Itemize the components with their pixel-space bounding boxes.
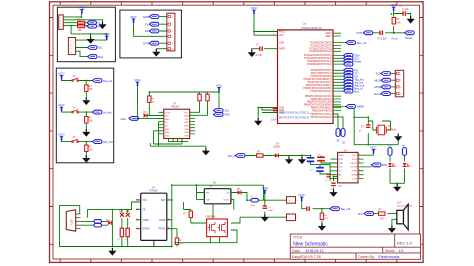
svg-text:R?: R? [183, 213, 187, 215]
ground (usb rail) [108, 248, 116, 256]
svg-text:GND: GND [279, 43, 284, 45]
svg-text:PC6(/RESET/PCINT14): PC6(/RESET/PCINT14) [307, 61, 332, 63]
net label Bus_in [228, 154, 302, 158]
svg-text:1K: 1K [180, 243, 183, 245]
svg-text:AC: AC [339, 174, 342, 177]
svg-text:X?: X? [388, 124, 392, 128]
ground [82, 129, 90, 137]
svg-text:D?: D? [392, 163, 396, 165]
VCC (pullups) [216, 83, 223, 91]
capacitor C vert (red) [325, 175, 331, 183]
net label Bus_lvl [344, 86, 364, 90]
svg-text:+: + [289, 199, 291, 203]
boost pin names [206, 192, 210, 201]
svg-text:USB: USB [71, 219, 74, 224]
svg-text:BAT: BAT [161, 199, 166, 202]
svg-text:DIO: DIO [165, 116, 169, 118]
svg-text:10K: 10K [78, 29, 83, 32]
net label GND [143, 15, 159, 19]
svg-text:1/1: 1/1 [399, 249, 404, 253]
svg-text:10uF: 10uF [338, 186, 344, 188]
dual MOSFET FS8205A [206, 216, 228, 237]
resistor R pullup2 [205, 93, 210, 101]
VCC (oled) [134, 78, 141, 86]
wire xtal1 [333, 114, 343, 129]
wire [390, 156, 405, 185]
fuse F2 (blue) [94, 223, 102, 227]
svg-text:10K: 10K [89, 148, 94, 151]
ground (battery cap) [261, 214, 269, 222]
svg-text:7: 7 [359, 177, 360, 179]
svg-text:10K: 10K [89, 88, 94, 91]
wire [254, 14, 278, 35]
svg-text:PB7(PCINT7/XTAL2/TOSC2): PB7(PCINT7/XTAL2/TOSC2) [279, 117, 309, 120]
svg-text:U?: U? [303, 23, 307, 26]
net label SCL [88, 46, 104, 50]
wire [62, 141, 93, 158]
resistor R1 [78, 19, 85, 25]
diode D bus [273, 143, 280, 158]
ground (divider) [318, 223, 326, 231]
svg-text:Buz: Buz [359, 212, 364, 216]
resistor R prog [175, 238, 183, 245]
svg-text:PB4(PCINT4/MISO): PB4(PCINT4/MISO) [311, 108, 332, 110]
svg-text:Reset: Reset [406, 36, 413, 40]
LED D2 [403, 163, 412, 168]
svg-text:PB6(PCINT6/XTAL1/TOSC1): PB6(PCINT6/XTAL1/TOSC1) [279, 112, 309, 115]
svg-text:X2: X2 [342, 142, 346, 145]
wire (under IC to gnd) [150, 122, 206, 148]
svg-text:1: 1 [297, 218, 299, 220]
svg-text:PROG: PROG [159, 229, 166, 231]
svg-text:BUSY: BUSY [351, 163, 357, 165]
wire (protection) [174, 202, 240, 243]
net label SCK [376, 72, 396, 76]
resistor R2 [78, 25, 85, 32]
net label TX [145, 22, 159, 26]
capacitor C batt [263, 206, 274, 212]
resistor R5 10K [85, 145, 94, 152]
svg-text:R?: R? [379, 209, 383, 212]
svg-text:C? 0.1uF: C? 0.1uF [377, 37, 387, 40]
VCC [58, 71, 65, 79]
svg-text:TXD: TXD [339, 163, 344, 165]
ground (speaker) [388, 225, 396, 233]
svg-text:10K: 10K [205, 93, 209, 95]
svg-text:R?: R? [324, 215, 328, 217]
wire [62, 80, 93, 99]
speaker LS? [397, 201, 413, 229]
svg-text:PD5(PCINT21/OC0B/T1): PD5(PCINT21/OC0B/T1) [306, 85, 332, 87]
svg-text:AVCC: AVCC [279, 30, 286, 33]
battery terminal B- [287, 214, 299, 221]
capacitor C in2 (blue) [310, 168, 324, 172]
svg-text:CHRG: CHRG [142, 220, 149, 222]
svg-text:PLE2: PLE2 [352, 159, 358, 161]
svg-text:PB3(PCINT3/OC2A/MOSI): PB3(PCINT3/OC2A/MOSI) [304, 104, 332, 107]
net label MISO [374, 78, 395, 82]
switch S1 [72, 75, 79, 82]
svg-text:Sheet:: Sheet: [385, 249, 395, 253]
net label Add_but [344, 83, 365, 87]
sheet outer border frame [50, 2, 424, 263]
svg-text:6: 6 [359, 173, 360, 175]
connector P2 (4 pin) [68, 38, 75, 55]
wire [134, 17, 167, 51]
svg-text:1K: 1K [152, 101, 155, 103]
wire speaker gnd [392, 214, 397, 226]
svg-text:Bus_vol: Bus_vol [357, 41, 367, 45]
ground (leds) [393, 184, 401, 192]
net label MOSI [374, 85, 395, 89]
net label Add_but [92, 140, 112, 144]
svg-text:TX: TX [145, 22, 149, 26]
TP4056 pin stubs [136, 200, 172, 247]
IC U? TP4056 body [141, 186, 167, 240]
net label SCL [344, 56, 361, 60]
svg-text:C?: C? [361, 125, 365, 128]
svg-text:VCC: VCC [142, 200, 147, 202]
svg-text:0.1uF: 0.1uF [256, 54, 263, 57]
svg-text:Vol_but: Vol_but [103, 110, 112, 114]
wire [252, 48, 278, 51]
diode D boost [237, 188, 241, 195]
svg-text:10uF: 10uF [271, 119, 277, 122]
diode D oled [144, 111, 164, 118]
ground [82, 98, 90, 106]
svg-text:PB0(PCINT0/CLKO/ICP1): PB0(PCINT0/CLKO/ICP1) [305, 96, 332, 98]
svg-text:MOSI: MOSI [374, 85, 381, 89]
svg-text:TM1637: TM1637 [171, 105, 181, 108]
svg-text:Reset: Reset [374, 92, 381, 96]
svg-text:PD7(PCINT23/AIN1): PD7(PCINT23/AIN1) [310, 90, 331, 93]
audio IC right stubs [358, 154, 374, 179]
audio IC pin numbers [359, 154, 360, 179]
svg-text:0.1uF: 0.1uF [403, 8, 410, 11]
svg-text:PD0(RXD/PCINT16): PD0(RXD/PCINT16) [311, 70, 332, 72]
resistor R3 10K [85, 85, 94, 92]
sheet inner border frame [53, 5, 420, 259]
resistor R4 10K [85, 117, 94, 124]
net label R (vert led2) [403, 146, 407, 156]
resistor R 100 (buzzer) [379, 209, 386, 221]
svg-text:5: 5 [359, 169, 360, 171]
MCU right pin names [303, 32, 332, 119]
wire (usb loop) [60, 202, 172, 249]
net label SDA [344, 54, 361, 58]
MCU left pin names [279, 30, 286, 114]
svg-text:VCC: VCC [279, 35, 284, 37]
connector P1 (4 pin) [59, 15, 64, 30]
svg-text:SCLK: SCLK [165, 112, 171, 114]
svg-text:X1: X1 [337, 140, 341, 143]
svg-text:2: 2 [359, 158, 360, 160]
net label Oled [121, 117, 139, 121]
capacitor C aref 0.1uF [256, 43, 263, 57]
wire (5V rail) [167, 185, 264, 246]
svg-text:CE: CE [142, 209, 146, 211]
capacitor C 10uF (amp gnd) [330, 183, 343, 191]
capacitor C b+ (blue) [250, 196, 258, 207]
svg-text:STDBY: STDBY [142, 229, 150, 231]
VCC (MCU supply) [251, 6, 258, 14]
svg-text:REV:: REV: [397, 241, 406, 245]
svg-text:PLAY: PLAY [352, 170, 358, 173]
ground (bus2) [298, 157, 306, 165]
svg-text:Add_but: Add_but [103, 140, 113, 144]
svg-text:-: - [289, 216, 290, 220]
capacitor C in1 (blue) [305, 155, 314, 161]
svg-text:VIN: VIN [206, 199, 210, 201]
diode D2 (X) [126, 210, 130, 217]
net label BTN [372, 163, 388, 167]
svg-text:ADC6: ADC6 [325, 32, 332, 35]
VCC (box1 top) [79, 5, 86, 13]
IC pin names [165, 112, 171, 137]
TP4056 pin names [142, 200, 150, 231]
crystal X1 16MHz [376, 124, 397, 135]
svg-text:Drawn By:: Drawn By: [358, 255, 375, 259]
IC U? boost converter body [204, 186, 231, 204]
pin numbers [137, 198, 171, 229]
svg-text:CTS2: CTS2 [352, 178, 358, 180]
capacitor C coupling (red) [317, 154, 325, 160]
svg-text:PB7(XTAL2/TOSC2): PB7(XTAL2/TOSC2) [311, 116, 332, 119]
ground (crystal) [394, 134, 402, 142]
wire [63, 13, 106, 56]
wire [138, 86, 220, 118]
wire (amp input caps) [302, 155, 338, 181]
svg-text:C?: C? [310, 170, 314, 172]
svg-text:1?: 1? [359, 130, 362, 133]
wire [302, 201, 331, 223]
ground [82, 155, 90, 163]
svg-text:U?: U? [209, 186, 213, 189]
svg-text:PC1(ADC1/PCINT9): PC1(ADC1/PCINT9) [311, 44, 332, 47]
svg-text:C?: C? [256, 43, 260, 46]
svg-text:3: 3 [359, 162, 360, 164]
svg-text:2018-09-12: 2018-09-12 [305, 249, 323, 253]
svg-text:Reset: Reset [355, 60, 362, 64]
svg-text:ADC7: ADC7 [325, 35, 332, 38]
svg-text:PC3(ADC3/PCINT11): PC3(ADC3/PCINT11) [309, 50, 331, 53]
net label SDA [214, 113, 230, 117]
IC U? audio player body [338, 149, 358, 183]
switch S2 [72, 106, 79, 113]
svg-text:5V: 5V [213, 181, 217, 185]
net label RX [87, 24, 101, 28]
net label SCL [214, 109, 230, 113]
svg-text:R?: R? [257, 151, 261, 154]
MCU bottom-left pin names PB6 PB7 [279, 112, 309, 120]
net label Reset [344, 62, 354, 66]
ground (box2) [152, 49, 160, 57]
svg-text:PC2(ADC2/PCINT10): PC2(ADC2/PCINT10) [309, 47, 331, 50]
svg-text:DCOM: DCOM [351, 167, 358, 169]
net label XTAL2 (vertical) [341, 129, 346, 145]
USB connector J? [66, 210, 80, 231]
svg-text:+5V: +5V [225, 192, 229, 194]
svg-text:1: 1 [359, 154, 360, 156]
resistor R oled pullup [148, 96, 156, 104]
LED D1 [388, 163, 397, 168]
svg-text:SCL: SCL [225, 110, 230, 113]
capacitor C 22pF [359, 125, 371, 133]
diode D1 (X) [119, 210, 124, 217]
net label D2 [344, 74, 359, 78]
IC U? display driver body [164, 102, 190, 138]
VCC (reset pullup) [390, 3, 397, 11]
svg-text:DTR: DTR [143, 41, 149, 45]
svg-text:VOUT: VOUT [223, 199, 230, 201]
svg-text:PD4(PCINT20/XCK/T0): PD4(PCINT20/XCK/T0) [307, 82, 331, 84]
resistor R 10K (reset pullup) [392, 18, 401, 25]
svg-text:FS8205A: FS8205A [206, 216, 216, 219]
svg-text:Buz: Buz [355, 89, 360, 93]
VCC (battery) [262, 186, 269, 194]
capacitor C 10uF [271, 108, 277, 121]
wire gnd pins left [258, 108, 277, 119]
svg-text:MISO: MISO [374, 78, 381, 82]
frame tick marks [50, 2, 424, 263]
svg-text:WIRE: WIRE [357, 105, 364, 109]
VCC (audio) [370, 145, 377, 153]
svg-text:PB6(XTAL1/TOSC1): PB6(XTAL1/TOSC1) [311, 113, 332, 116]
net label XTAL1 (vertical) [336, 129, 340, 143]
svg-text:LED*: LED* [407, 166, 412, 168]
svg-text:Reset: Reset [392, 37, 399, 40]
capacitor C usb2 [125, 228, 129, 241]
svg-text:VCC: VCC [184, 112, 189, 114]
connector ISP (4 pin) [395, 70, 403, 97]
net label Vol_but [92, 110, 111, 114]
svg-text:LED*: LED* [392, 166, 397, 168]
svg-text:C?: C? [317, 154, 321, 156]
svg-text:C?: C? [325, 180, 329, 182]
svg-text:Electronoobs: Electronoobs [378, 255, 399, 259]
capacitor C div (red) [307, 207, 309, 211]
audio IC pin names [339, 155, 344, 177]
svg-text:10uF: 10uF [250, 205, 256, 207]
capacitor C 0.1uF (dtr) [377, 31, 398, 41]
net label Buz [359, 212, 392, 216]
svg-text:100: 100 [380, 217, 385, 220]
svg-text:PC6(/RESET/PCINT14): PC6(/RESET/PCINT14) [307, 64, 332, 66]
svg-text:10uF: 10uF [268, 210, 274, 212]
svg-text:TEMP: TEMP [159, 220, 166, 222]
ground (box1 mid) [87, 36, 95, 44]
net label DTR [143, 41, 159, 45]
fuse F1 (blue) [94, 220, 102, 224]
svg-text:PD2(INT0/PCINT18): PD2(INT0/PCINT18) [310, 76, 331, 78]
net label TX [344, 71, 359, 75]
svg-text:DTR: DTR [357, 31, 362, 35]
net label Tog_but [92, 79, 112, 83]
svg-text:PB1(PCINT1/OC1A): PB1(PCINT1/OC1A) [311, 98, 332, 101]
svg-text:R?: R? [152, 98, 156, 100]
switch S3 [72, 136, 79, 143]
wire junction dots [70, 13, 398, 247]
svg-text:TITLE:: TITLE: [293, 236, 303, 240]
svg-text:SDA: SDA [98, 56, 103, 59]
svg-text:GND: GND [143, 15, 149, 19]
VCC (box2) [130, 15, 137, 23]
net label SDA [88, 55, 104, 59]
resistor R div 10K [320, 213, 329, 220]
svg-text:SPKA: SPKA [351, 174, 357, 177]
ground (aref) [248, 50, 256, 58]
net label Buz [344, 89, 360, 93]
svg-text:PC5(ADC5/SCL/PCINT13): PC5(ADC5/SCL/PCINT13) [304, 57, 332, 60]
boost stubs / wires [197, 185, 248, 219]
svg-text:Speaker 4R 3W: Speaker 4R 3W [397, 204, 413, 207]
svg-text:AREF: AREF [279, 48, 286, 51]
svg-text:EasyEDA V5.7.28: EasyEDA V5.7.28 [292, 255, 321, 259]
svg-text:BTN: BTN [382, 163, 387, 167]
net label RX [145, 29, 159, 33]
net label DTR [357, 31, 373, 35]
net label Tog_but [344, 78, 365, 82]
ground (MCU) [254, 118, 262, 126]
svg-text:10K: 10K [89, 120, 94, 123]
net label Reset [405, 31, 415, 40]
svg-text:LEDM: LEDM [273, 146, 280, 149]
svg-text:Bat_volt: Bat_volt [341, 207, 351, 211]
wire [62, 111, 93, 130]
svg-text:1.0: 1.0 [407, 241, 412, 245]
ground (box1 right) [98, 22, 106, 30]
MCU right pin stubs [333, 33, 347, 110]
svg-text:PB2(PCINT2/SS/OC1B): PB2(PCINT2/SS/OC1B) [307, 102, 332, 104]
net label Bus_vol [346, 41, 367, 45]
svg-text:VCC: VCC [353, 155, 358, 157]
box1 frame [57, 7, 115, 62]
resistor R pullup1 [197, 93, 202, 101]
svg-text:RXD: RXD [339, 159, 344, 161]
svg-text:R?: R? [180, 240, 184, 242]
connector P3 (6 pin FTDI) [167, 13, 175, 51]
wire crystal [354, 108, 398, 145]
net label Vol_but [344, 80, 364, 84]
ground (amp) [329, 189, 337, 197]
wire [373, 11, 411, 33]
svg-text:PD6(PCINT22/OC0A/AIN0): PD6(PCINT22/OC0A/AIN0) [303, 87, 331, 90]
svg-text:PC0(ADC0/PCINT8): PC0(ADC0/PCINT8) [311, 42, 332, 45]
ground (reset cap) [407, 16, 415, 24]
capacitor C usb1 [117, 228, 124, 241]
svg-text:PC4(ADC4/SDA/PCINT12): PC4(ADC4/SDA/PCINT12) [304, 54, 332, 57]
IC pin stubs [159, 112, 196, 134]
svg-text:10K: 10K [396, 21, 401, 24]
svg-text:TP4056: TP4056 [149, 189, 158, 192]
title block [290, 234, 420, 259]
IC U? ATMEGA328P-AU body [278, 23, 334, 124]
svg-text:PB5(SCK/PCINT5): PB5(SCK/PCINT5) [312, 110, 332, 112]
svg-text:RX: RX [145, 29, 149, 33]
net label Bat_volt [330, 207, 351, 211]
svg-text:16MHz: 16MHz [388, 127, 397, 131]
svg-text:D?: D? [237, 188, 241, 191]
svg-text:C?: C? [268, 207, 272, 209]
svg-text:Date:: Date: [292, 249, 301, 253]
svg-text:EN: EN [206, 192, 209, 194]
box2 frame [120, 10, 181, 58]
svg-text:Tog_but: Tog_but [103, 79, 113, 83]
net label Reset [374, 92, 395, 96]
resistor R bus [257, 151, 264, 158]
VCC (box1 lower) [103, 32, 110, 40]
svg-text:New Schematic: New Schematic [293, 241, 328, 247]
